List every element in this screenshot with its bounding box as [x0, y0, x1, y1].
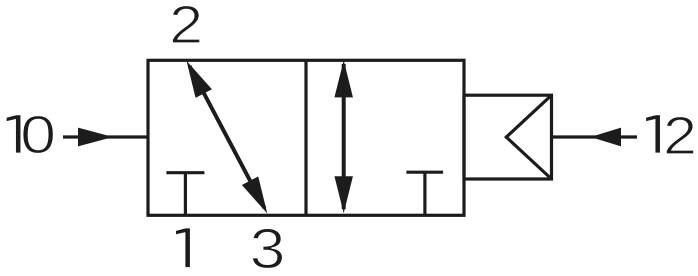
port label 1 [176, 228, 190, 267]
arrowhead on pilot line 10 [78, 128, 113, 147]
blocked port seat (right box T) stem [423, 171, 426, 215]
pilot actuator box (right) [464, 95, 552, 179]
flow path arrowhead toward port 2 [187, 61, 212, 98]
wire: pilot line 12 (right) [552, 135, 638, 138]
flow arrowhead down [334, 176, 353, 213]
pilot pressure triangle [506, 95, 551, 179]
pilot label 12: digit 1 [646, 115, 660, 152]
flow arrowhead up [334, 60, 353, 97]
wire: pilot line 10 (left) [63, 135, 148, 138]
svg-text:2: 2 [663, 106, 697, 166]
divider between position 1 and position 2 [304, 60, 307, 215]
blocked port 1 seat (left box T) bar [166, 171, 204, 174]
valve body: position squares outline [148, 60, 464, 215]
pilot label 10: digit 1 [7, 115, 21, 152]
blocked port seat (right box T) bar [406, 171, 443, 174]
flow path arrow 2-3 shaft (left box) [190, 66, 265, 208]
flow path arrow 1-2 shaft (right box) [342, 64, 346, 209]
arrowhead on pilot line 12 [591, 128, 622, 147]
blocked port 1 seat (left box T) stem [184, 172, 187, 216]
flow path arrowhead toward port 3 [242, 176, 267, 213]
svg-text:0: 0 [20, 105, 56, 165]
svg-text:2: 2 [169, 0, 203, 55]
svg-text:3: 3 [250, 217, 286, 276]
